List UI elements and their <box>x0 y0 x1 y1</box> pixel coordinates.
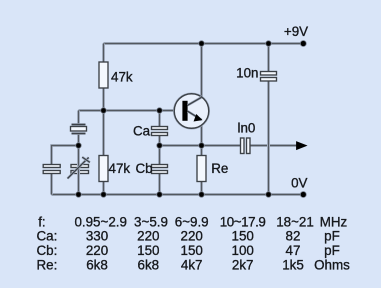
svg-text:Re: Re <box>211 161 228 176</box>
trimmer T-bar <box>82 157 90 162</box>
svg-text:3~5.9: 3~5.9 <box>134 214 168 229</box>
capacitor 10n plate 1 <box>261 72 277 76</box>
trimmer capacitor plate 1 <box>71 165 89 168</box>
transistor Q1 circle <box>174 94 209 129</box>
svg-text:f:: f: <box>38 214 45 229</box>
wire emitter vertical through Re <box>200 120 203 195</box>
svg-text:ln0: ln0 <box>238 121 256 136</box>
wire Cb branch <box>158 146 161 195</box>
wire trimmer vertical <box>77 146 80 195</box>
node 10n-ground <box>265 191 271 197</box>
wire left branch to fixed capacitor <box>52 146 79 195</box>
node rail-10n <box>265 40 271 46</box>
svg-text:6~9.9: 6~9.9 <box>175 214 209 229</box>
svg-text:47: 47 <box>286 243 301 258</box>
output arrowhead <box>297 142 306 149</box>
capacitor 10n plate 2 <box>261 78 277 82</box>
svg-text:pF: pF <box>324 229 340 244</box>
wire 10n branch vertical <box>267 44 270 195</box>
svg-text:Ca: Ca <box>133 123 151 138</box>
capacitor Ca plate 2 <box>152 133 168 136</box>
capacitor 1n0 plate 2 <box>247 138 251 154</box>
crystal X1 bottom plate <box>72 132 86 135</box>
wire +9V top rail <box>104 42 304 45</box>
svg-text:150: 150 <box>232 229 254 244</box>
svg-text:6k8: 6k8 <box>86 258 108 273</box>
node trimmer-ground <box>75 191 81 197</box>
svg-text:Cb:: Cb: <box>37 243 58 258</box>
svg-text:Ohms: Ohms <box>314 258 350 273</box>
trimmer capacitor plate 2 <box>71 171 89 174</box>
svg-text:18~21: 18~21 <box>276 214 314 229</box>
capacitor C1 fixed plate 1 <box>43 165 60 168</box>
svg-text:MHz: MHz <box>320 214 348 229</box>
resistor R1 47k top <box>99 62 108 88</box>
svg-text:330: 330 <box>86 229 108 244</box>
node 0V terminal <box>300 191 307 198</box>
svg-text:0.95~2.9: 0.95~2.9 <box>74 214 127 229</box>
svg-text:150: 150 <box>181 243 203 258</box>
svg-text:220: 220 <box>181 229 203 244</box>
node Re-ground <box>198 191 204 197</box>
resistor R2 47k bottom <box>99 156 108 182</box>
svg-text:+9V: +9V <box>284 24 308 39</box>
crystal X1 body <box>71 127 87 132</box>
svg-text:10~17.9: 10~17.9 <box>220 214 266 229</box>
node emitter-output junction <box>198 142 204 148</box>
svg-text:1k5: 1k5 <box>282 258 304 273</box>
svg-text:Ca:: Ca: <box>37 229 58 244</box>
node Ca-Cb-output junction <box>156 142 162 148</box>
node A base junction <box>100 107 106 113</box>
node 47k-ground <box>100 191 106 197</box>
wire crystal branch vertical <box>77 111 80 146</box>
svg-text:10n: 10n <box>236 66 258 81</box>
wire output line <box>160 144 298 147</box>
svg-text:4k7: 4k7 <box>181 258 203 273</box>
node base-Ca junction <box>156 107 162 113</box>
capacitor Cb plate 2 <box>152 171 168 174</box>
capacitor Ca plate 1 <box>152 127 168 130</box>
svg-text:2k7: 2k7 <box>232 258 254 273</box>
svg-text:220: 220 <box>86 243 108 258</box>
node Cb-ground <box>156 191 162 197</box>
capacitor Cb plate 1 <box>152 165 168 168</box>
node rail-collector <box>198 40 204 46</box>
svg-text:Re:: Re: <box>37 258 58 273</box>
capacitor C1 fixed plate 2 <box>43 171 60 174</box>
wire 0V bottom rail <box>52 193 304 196</box>
transistor Q1 collector diagonal <box>188 97 202 105</box>
transistor Q1 emitter diagonal <box>188 111 202 120</box>
svg-text:82: 82 <box>286 229 301 244</box>
wire collector vertical <box>200 44 203 98</box>
svg-text:47k: 47k <box>109 161 131 176</box>
wire Ca branch <box>158 111 161 146</box>
resistor Re <box>197 156 206 182</box>
svg-text:220: 220 <box>137 229 159 244</box>
transistor Q1 emitter arrowhead <box>194 115 201 121</box>
svg-text:pF: pF <box>324 243 340 258</box>
trimmer adjust diagonal <box>68 157 89 178</box>
svg-text:Cb: Cb <box>136 161 153 176</box>
svg-text:47k: 47k <box>111 70 133 85</box>
capacitor 1n0 plate 1 <box>241 138 245 154</box>
transistor Q1 base bar <box>182 101 187 121</box>
svg-text:0V: 0V <box>291 176 307 191</box>
node +9V terminal <box>300 40 307 47</box>
node crystal junction <box>75 142 81 148</box>
wire base line <box>79 109 183 112</box>
svg-text:6k8: 6k8 <box>138 258 160 273</box>
svg-text:150: 150 <box>137 243 159 258</box>
svg-text:100: 100 <box>232 243 254 258</box>
wire left vertical through 47k resistors <box>102 44 105 195</box>
crystal X1 top plate <box>72 123 86 126</box>
